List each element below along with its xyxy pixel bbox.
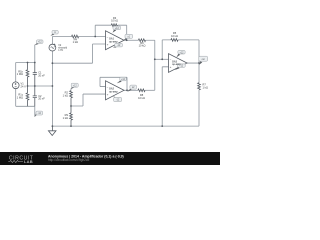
- svg-text:20 nF: 20 nF: [38, 73, 45, 77]
- resistor R7: [198, 83, 201, 90]
- resistor R8: [138, 89, 145, 92]
- footer text: [48, 154, 124, 162]
- svg-text:out: out: [202, 58, 206, 61]
- wire R8 to node: [145, 89, 155, 91]
- svg-text:+: +: [107, 42, 109, 46]
- flag C V+: [176, 54, 180, 58]
- junction at 34.8,62.5: [34, 62, 36, 64]
- junction at 71,126.1: [70, 125, 72, 127]
- wire bottom left rail: [16, 106, 35, 116]
- wire mid rail: [28, 85, 53, 87]
- op-amp C body: [169, 54, 188, 73]
- flag B out: [127, 89, 131, 92]
- voltage source V1: [12, 82, 19, 89]
- wire to op-amp A plus input: [52, 44, 105, 63]
- ground: [48, 126, 56, 135]
- wire B follower loop: [100, 77, 127, 90]
- wire C plus input grounded: [162, 67, 168, 126]
- flag -12 bottom left: [34, 112, 38, 117]
- svg-text:op-amp: op-amp: [109, 90, 118, 93]
- junction at 71,106: [70, 105, 72, 107]
- svg-text:10 kΩ: 10 kΩ: [139, 44, 146, 48]
- wire V2 top stub: [51, 37, 53, 45]
- junction at 27.5,62.5: [27, 62, 29, 64]
- resistor R9: [70, 113, 73, 126]
- svg-text:20 nF: 20 nF: [38, 97, 45, 101]
- resistor R5: [171, 39, 178, 42]
- flag A V-: [113, 46, 117, 47]
- junction dots: [27, 36, 200, 127]
- svg-text:1 MΩ: 1 MΩ: [17, 72, 23, 76]
- svg-text:+: +: [170, 65, 172, 69]
- op-amp B body: [106, 81, 125, 100]
- flag out node right: [199, 61, 203, 65]
- junction at 27.5,86: [27, 85, 29, 87]
- tiny component labels: [17, 16, 208, 120]
- flag B V+: [117, 80, 122, 83]
- wire C minus input: [155, 58, 169, 60]
- flag net in at V2 top: [50, 34, 54, 36]
- resistor R3: [111, 24, 117, 27]
- flag +12 top rail: [35, 43, 39, 45]
- wire R6 to node vertical: [146, 40, 155, 90]
- V2 sine mark: [51, 47, 54, 49]
- resistor R4: [72, 35, 79, 38]
- flag C V-: [175, 67, 180, 70]
- svg-text:LAB: LAB: [24, 159, 33, 164]
- svg-text:1 kΩ: 1 kΩ: [73, 40, 78, 44]
- op-amp A body: [106, 31, 125, 50]
- svg-text:10 kΩ: 10 kΩ: [111, 19, 118, 23]
- junction at 52.4,126.1: [52, 125, 54, 127]
- junction at 95.2,36.5: [94, 36, 96, 38]
- flag texts: [38, 28, 206, 115]
- svg-text:1 Hz: 1 Hz: [58, 49, 64, 52]
- capacitor C2: [33, 86, 37, 106]
- junction at 52.4,63.2: [52, 62, 54, 64]
- junction at 154.8,59.3: [154, 58, 156, 60]
- svg-text:1 kΩ: 1 kΩ: [63, 94, 68, 98]
- svg-text:http://circuitlab.com/c/9gh2cd: http://circuitlab.com/c/9gh2cd: [48, 158, 90, 162]
- flag A V+: [113, 29, 117, 33]
- resistor R6: [138, 39, 145, 42]
- resistor R1b: [26, 63, 29, 87]
- junction at 199,63.05: [198, 62, 200, 64]
- junction at 52.4,86: [52, 85, 54, 87]
- footer bar: [0, 152, 220, 165]
- svg-text:10 kΩ: 10 kΩ: [171, 34, 178, 38]
- wire B output: [124, 89, 138, 91]
- svg-text:10 kΩ: 10 kΩ: [138, 96, 145, 100]
- flag +12 divider top: [70, 87, 74, 90]
- source polarity marks: [15, 44, 56, 87]
- wire feedback A left leg: [95, 25, 111, 36]
- resistor R1c: [26, 86, 29, 106]
- wire A output: [124, 39, 138, 41]
- junction at 162.2,126.1: [161, 125, 163, 127]
- junction at 127,90.3: [126, 89, 128, 91]
- svg-text:24 V: 24 V: [21, 85, 27, 89]
- wire R4 input: [52, 36, 105, 38]
- junction at 162.2,59.3: [161, 58, 163, 60]
- svg-text:−: −: [107, 35, 109, 39]
- wire feedback C left leg: [162, 40, 171, 59]
- V1 plus minus marks: [15, 83, 17, 87]
- CircuitLab logo: [8, 156, 34, 165]
- flag A out: [123, 38, 127, 41]
- svg-text:−: −: [170, 58, 172, 62]
- capacitor C1: [33, 63, 37, 87]
- wire feedback C right leg: [178, 40, 199, 63]
- V2 plus minus marks: [54, 44, 56, 47]
- junction at 126.7,40.25: [126, 39, 128, 41]
- divider flag stub: [70, 89, 72, 91]
- wire main vertical: [51, 51, 53, 126]
- wire C output: [187, 63, 199, 83]
- wire bottom ground rail: [52, 125, 199, 127]
- svg-text:1 kΩ: 1 kΩ: [63, 116, 68, 120]
- junction at 34.8,86: [34, 85, 36, 87]
- svg-text:1 MΩ: 1 MΩ: [17, 95, 23, 99]
- svg-text:−: −: [107, 85, 109, 89]
- voltage source V2: [49, 44, 56, 51]
- wire top rail: [16, 45, 35, 63]
- resistor R2: [70, 91, 73, 113]
- svg-text:op-amp: op-amp: [109, 40, 118, 43]
- wire V1 stubs: [15, 63, 17, 107]
- node flags: [34, 26, 207, 117]
- flag B V-: [113, 95, 117, 98]
- svg-text:+: +: [107, 92, 109, 96]
- svg-text:1 kΩ: 1 kΩ: [203, 85, 208, 89]
- wire feedback A right leg: [118, 25, 127, 40]
- wire divider tap to B plus input: [71, 94, 106, 106]
- wire R7 to rail: [198, 90, 200, 126]
